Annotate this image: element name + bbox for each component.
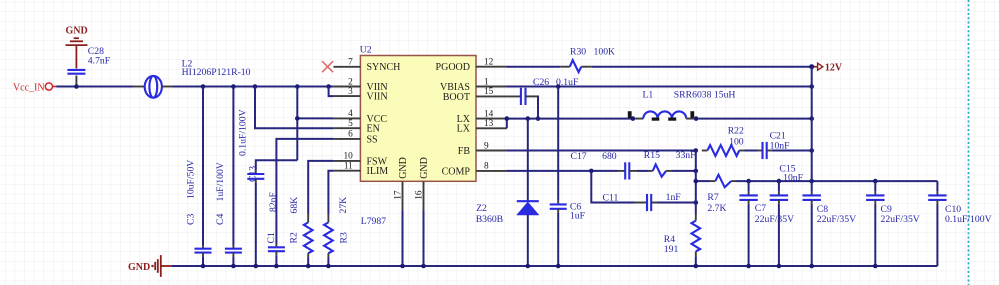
svg-text:10: 10 (344, 152, 354, 162)
svg-text:GND: GND (419, 157, 430, 179)
svg-text:22uF/35V: 22uF/35V (817, 214, 856, 225)
capacitor C13 0.1uF/100V (238, 109, 265, 182)
capacitor C26 0.1uF (521, 77, 579, 105)
svg-text:B360B: B360B (476, 214, 503, 225)
wire VCC jog to C13 (256, 160, 297, 170)
junction dots on GND rail (201, 264, 206, 269)
wire pin 17 to rail (402, 211, 404, 267)
svg-text:4: 4 (348, 109, 353, 119)
svg-text:0.1uF/100V: 0.1uF/100V (238, 109, 249, 156)
wire Vcc_IN to bead (56, 86, 132, 88)
pin 17 GND (402, 181, 404, 210)
IC U2 L7987 (360, 45, 476, 227)
svg-text:C4: C4 (215, 214, 226, 225)
wire output row (737, 180, 938, 182)
capacitor C15 10nF (770, 164, 804, 266)
capacitor C11 1nF (603, 192, 682, 211)
resistor R7 2.7K (707, 175, 731, 214)
svg-text:5: 5 (348, 119, 353, 129)
svg-text:FB: FB (458, 146, 471, 157)
svg-text:L7987: L7987 (361, 216, 386, 227)
svg-text:82nF: 82nF (268, 191, 279, 212)
svg-text:16: 16 (415, 190, 425, 200)
capacitor C28 4.7nF (67, 46, 110, 86)
wire R7 row (696, 180, 710, 182)
resistor R3 27K (324, 197, 349, 253)
svg-text:GND: GND (65, 26, 87, 37)
wire Z2 column (527, 119, 529, 202)
svg-text:R3: R3 (339, 232, 350, 243)
port Vcc_IN (13, 82, 56, 93)
svg-text:1: 1 (484, 77, 489, 87)
svg-text:17: 17 (394, 190, 404, 200)
svg-text:68K: 68K (289, 197, 300, 214)
resistor R30 100K (570, 46, 615, 72)
svg-text:GND: GND (398, 157, 409, 179)
svg-text:4.7nF: 4.7nF (88, 55, 111, 66)
capacitor C3 10uF/50V (185, 160, 211, 253)
svg-text:LX: LX (457, 124, 471, 135)
wire 12V column (811, 67, 813, 181)
svg-text:C11: C11 (603, 192, 619, 203)
svg-text:BOOT: BOOT (443, 92, 470, 103)
pin 1 VBIAS (476, 86, 507, 88)
pin 5 EN (333, 127, 360, 129)
resistor R4 191 (664, 221, 700, 255)
capacitor C6 1uF (550, 201, 586, 221)
wire EN column to pin 5 (255, 87, 333, 129)
svg-text:COMP: COMP (442, 166, 471, 177)
svg-text:13: 13 (484, 119, 494, 129)
capacitor C21 10nF (763, 131, 791, 159)
svg-text:8: 8 (484, 162, 489, 172)
pin 3 VIIN (333, 95, 360, 97)
node LX junction (526, 116, 531, 121)
svg-text:1uF/100V: 1uF/100V (215, 162, 226, 201)
svg-text:100K: 100K (594, 46, 616, 57)
svg-text:680: 680 (602, 151, 617, 162)
wire pin 3 jog to input row (329, 87, 334, 97)
svg-text:14: 14 (484, 109, 494, 119)
power port 12V (814, 62, 843, 73)
wire FSW pin 10 to R2 column (308, 161, 333, 214)
svg-text:9: 9 (484, 141, 489, 151)
svg-text:22uF/35V: 22uF/35V (881, 214, 920, 225)
pin 12 PGOOD (476, 66, 507, 68)
wire BOOT cap to LX (526, 95, 539, 97)
svg-text:1nF: 1nF (666, 192, 682, 203)
wire VBIAS row (507, 86, 812, 88)
svg-text:15: 15 (484, 87, 494, 97)
svg-text:27K: 27K (338, 197, 349, 214)
svg-text:C7: C7 (755, 203, 766, 214)
svg-text:R2: R2 (289, 232, 300, 243)
svg-text:Vcc_IN: Vcc_IN (13, 82, 45, 93)
svg-text:L1: L1 (643, 90, 654, 101)
svg-text:VIIN: VIIN (367, 92, 388, 103)
wire FB row (507, 150, 696, 152)
wire VCC column to pin 4 (296, 87, 298, 161)
node junction at C28 (74, 84, 79, 89)
svg-text:2.7K: 2.7K (707, 203, 726, 214)
node VBIAS junction (556, 84, 561, 89)
no-connect X on pin 7 (322, 61, 333, 72)
capacitor C7 22uF/35V (739, 181, 794, 266)
svg-text:SYNCH: SYNCH (367, 62, 401, 73)
svg-text:100: 100 (729, 137, 744, 148)
svg-text:R22: R22 (728, 126, 744, 137)
wire GND rail (172, 265, 937, 267)
wire ILIM pin 11 to R3 column (328, 171, 333, 214)
pin 6 SS (333, 138, 360, 140)
svg-text:SS: SS (367, 134, 378, 145)
wire LX row (507, 118, 633, 120)
wire SS pin 6 to C1 column (276, 139, 333, 244)
svg-text:22uF/35V: 22uF/35V (755, 214, 794, 225)
ferrite bead L2 HI1206P121R-10 (133, 58, 251, 97)
svg-text:HI1206P121R-10: HI1206P121R-10 (182, 67, 251, 78)
capacitor C17 680 (571, 151, 630, 180)
svg-text:1uF: 1uF (570, 211, 586, 222)
resistor R15 (644, 150, 696, 177)
svg-text:GND: GND (128, 262, 150, 273)
svg-text:11: 11 (344, 162, 353, 172)
pin 16 GND (423, 181, 425, 210)
power port GND (top) (65, 26, 87, 69)
svg-text:C17: C17 (571, 151, 587, 162)
wire COMP row (507, 170, 618, 172)
wire L1 to 12V column (698, 118, 812, 120)
svg-text:10uF/50V: 10uF/50V (185, 160, 196, 199)
svg-text:R7: R7 (707, 192, 718, 203)
pin 9 FB (476, 150, 507, 152)
svg-text:R15: R15 (644, 150, 660, 161)
wire PGOOD row (507, 66, 561, 68)
svg-text:C1: C1 (266, 232, 277, 243)
inductor L1 SRR6038 15uH (628, 90, 736, 121)
resistor R2 68K (289, 197, 313, 253)
diode Z2 B360B (476, 201, 539, 225)
svg-text:0.1uF/100V: 0.1uF/100V (945, 214, 992, 225)
wire C3 column (202, 87, 204, 246)
capacitor C8 22uF/35V (803, 181, 857, 266)
svg-text:SRR6038 15uH: SRR6038 15uH (674, 90, 736, 101)
pin 10 FSW (333, 160, 360, 162)
pin 13 LX (476, 127, 507, 129)
svg-text:2: 2 (348, 77, 353, 87)
pin 14 LX (476, 118, 507, 120)
svg-text:0.1uF: 0.1uF (556, 77, 579, 88)
svg-text:U2: U2 (360, 45, 372, 56)
svg-text:EN: EN (367, 124, 380, 135)
svg-text:6: 6 (348, 130, 353, 140)
wire bead to pin2 VIIN (173, 86, 334, 88)
svg-text:7: 7 (348, 58, 353, 68)
wire R4 column (695, 151, 697, 214)
svg-text:33nF: 33nF (676, 150, 697, 161)
pin 8 COMP (476, 170, 507, 172)
pin 4 VCC (333, 117, 360, 119)
svg-text:C13: C13 (248, 166, 259, 182)
wire VBIAS to C6 column (557, 87, 559, 201)
resistor R22 100 (707, 126, 744, 157)
capacitor C4 1uF/100V (215, 162, 242, 252)
svg-text:10nF: 10nF (783, 172, 804, 183)
node 12V junction (809, 64, 814, 69)
power port GND (bottom) (128, 255, 172, 277)
capacitor C1 82nF (266, 191, 285, 251)
capacitor C9 22uF/35V (866, 181, 920, 266)
svg-text:3: 3 (348, 87, 353, 97)
pin 7 SYNCH (333, 66, 360, 68)
svg-text:191: 191 (664, 244, 679, 255)
wire COMP branch down to C11 row (591, 171, 634, 203)
junction dots on input row (201, 84, 206, 89)
pin 2 VIIN (333, 86, 360, 88)
pin 15 BOOT (476, 95, 521, 97)
svg-text:12V: 12V (825, 62, 843, 73)
wire C4 column (232, 87, 234, 246)
capacitor C10 0.1uF/100V (928, 181, 991, 266)
svg-text:R30: R30 (570, 46, 586, 57)
svg-text:PGOOD: PGOOD (436, 62, 470, 73)
svg-text:C26: C26 (533, 77, 549, 88)
svg-text:ILIM: ILIM (367, 166, 389, 177)
svg-text:Z2: Z2 (476, 203, 487, 214)
svg-text:12: 12 (484, 58, 494, 68)
pin 11 ILIM (333, 170, 360, 172)
wire pin 13 join (506, 119, 508, 129)
svg-text:C3: C3 (185, 214, 196, 225)
wire pin 16 to rail (423, 211, 425, 267)
